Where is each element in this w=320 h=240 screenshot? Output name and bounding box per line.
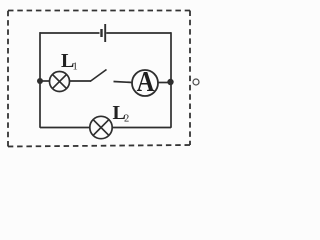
wire top-left horizontal [40, 32, 100, 34]
svg-text:2: 2 [124, 114, 129, 125]
battery B short plate (negative) [100, 29, 102, 37]
battery B long plate (positive) [104, 24, 106, 42]
svg-text:A: A [137, 67, 155, 98]
wire lamp L1 to switch [70, 80, 91, 82]
lamp L2 [90, 116, 112, 138]
ammeter A [132, 70, 158, 96]
switch S blade [90, 70, 107, 82]
enclosure dashed box [8, 11, 190, 147]
svg-text:1: 1 [73, 62, 78, 73]
wire left vertical [39, 32, 41, 128]
wire ammeter to right node [158, 82, 171, 84]
wire right vertical [170, 32, 172, 128]
wire bottom-left horizontal [40, 127, 90, 129]
wire lamp L2 to right wire [112, 127, 171, 129]
node junction dot left [37, 78, 43, 84]
node junction dot right [167, 79, 173, 85]
wire node to lamp L1 [40, 80, 50, 82]
terminal circle outside box [193, 79, 199, 85]
wire switch contact to ammeter [114, 82, 133, 83]
wire top-right horizontal [106, 32, 171, 34]
lamp L1 [50, 72, 70, 92]
